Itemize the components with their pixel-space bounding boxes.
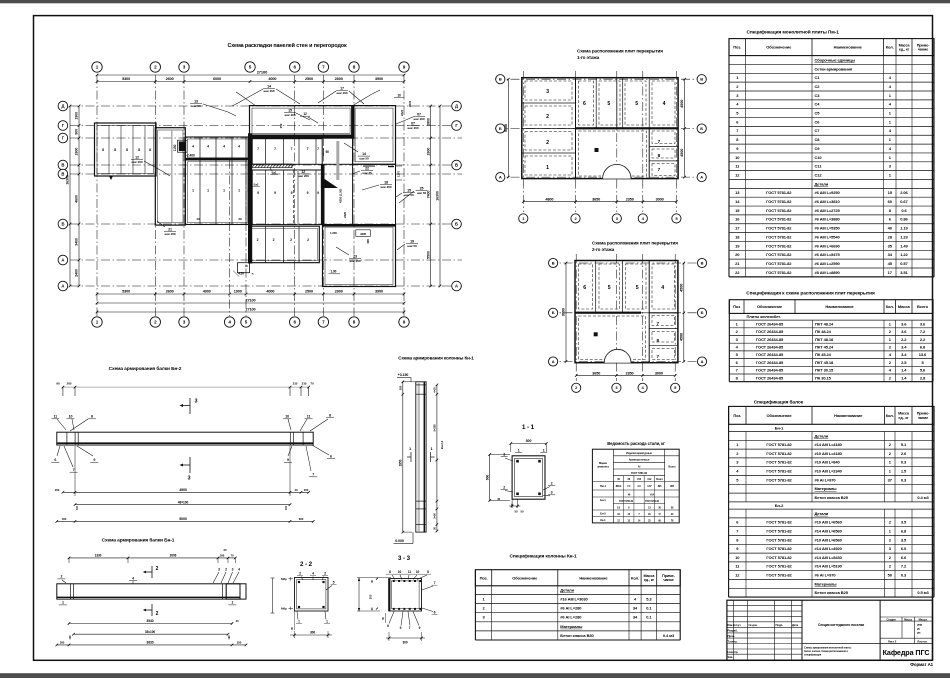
svg-text:35=100: 35=100 bbox=[145, 630, 155, 634]
svg-text:Детали: Детали bbox=[815, 511, 829, 516]
svg-text:сб: сб bbox=[245, 264, 248, 268]
svg-text:ГОСТ 5781-82: ГОСТ 5781-82 bbox=[766, 252, 792, 257]
svg-text:4: 4 bbox=[238, 568, 240, 572]
svg-text:Разраб.: Разраб. bbox=[728, 629, 738, 633]
svg-text:3: 3 bbox=[218, 568, 220, 572]
svg-text:10: 10 bbox=[416, 570, 420, 574]
svg-text:ГОСТ 26434-85: ГОСТ 26434-85 bbox=[756, 329, 784, 334]
main plan vertical axes bbox=[96, 75, 98, 316]
svg-text:Б: Б bbox=[700, 126, 703, 131]
svg-text:7: 7 bbox=[274, 147, 276, 151]
svg-text:2: 2 bbox=[324, 572, 326, 576]
svg-text:6000: 6000 bbox=[213, 77, 221, 81]
svg-text:2: 2 bbox=[290, 238, 292, 242]
svg-text:900: 900 bbox=[75, 129, 79, 135]
svg-text:2600: 2600 bbox=[75, 148, 79, 156]
beam Bn-2 section mark 3 lower bbox=[189, 457, 191, 473]
thick wall axis 8 top bbox=[351, 106, 354, 139]
column Kn-1 left dim bbox=[402, 382, 404, 532]
svg-text:1: 1 bbox=[231, 601, 233, 605]
svg-text:3: 3 bbox=[232, 568, 234, 572]
svg-text:1: 1 bbox=[543, 449, 545, 453]
svg-text:90: 90 bbox=[56, 382, 60, 386]
svg-text:ГОСТ 5781-82: ГОСТ 5781-82 bbox=[766, 564, 792, 569]
svg-text:300: 300 bbox=[310, 630, 315, 634]
svg-text:21: 21 bbox=[168, 228, 172, 232]
svg-text:17: 17 bbox=[340, 87, 344, 91]
svg-text:спецификация: спецификация bbox=[804, 654, 822, 657]
title block bbox=[727, 600, 933, 660]
svg-text:2800: 2800 bbox=[335, 290, 343, 294]
svg-text:шаг 200: шаг 200 bbox=[337, 91, 348, 95]
svg-text:Секция коттеджного поселка: Секция коттеджного поселка bbox=[818, 623, 864, 627]
svg-text:Изделия арматурные: Изделия арматурные bbox=[626, 451, 652, 455]
svg-text:С6: С6 bbox=[815, 119, 821, 124]
svg-text:1 - 1: 1 - 1 bbox=[522, 424, 535, 431]
svg-text:Бн-1: Бн-1 bbox=[600, 498, 606, 502]
svg-text:#10 АIII L=2340: #10 АIII L=2340 bbox=[815, 469, 843, 474]
svg-text:1: 1 bbox=[546, 165, 549, 171]
svg-text:1170: 1170 bbox=[397, 171, 401, 178]
svg-text:шаг 50: шаг 50 bbox=[407, 244, 417, 248]
svg-text:Бн-1: Бн-1 bbox=[775, 425, 784, 430]
section 3-3 left dim bbox=[358, 578, 360, 612]
svg-text:880.2: 880.2 bbox=[616, 485, 622, 488]
svg-text:3.6: 3.6 bbox=[920, 321, 926, 326]
svg-text:Детали: Детали bbox=[560, 588, 574, 593]
svg-text:Спецификация балок: Спецификация балок bbox=[754, 399, 804, 406]
block B: stairwell axes 2-3 bbox=[155, 128, 185, 225]
svg-text:3900: 3900 bbox=[375, 290, 383, 294]
svg-text:С3: С3 bbox=[815, 93, 821, 98]
svg-text:12: 12 bbox=[135, 156, 139, 160]
svg-text:2800: 2800 bbox=[335, 77, 343, 81]
svg-text:#6 АI L=970: #6 АI L=970 bbox=[815, 573, 837, 578]
svg-text:200: 200 bbox=[67, 382, 72, 386]
svg-text:48=100: 48=100 bbox=[178, 500, 189, 504]
svg-text:А: А bbox=[552, 359, 555, 364]
svg-text:0.1: 0.1 bbox=[646, 615, 652, 620]
thick wall axis 6 bbox=[248, 133, 252, 263]
svg-text:0.3: 0.3 bbox=[901, 460, 907, 465]
svg-text:#14 АIII L=4180: #14 АIII L=4180 bbox=[815, 442, 843, 447]
svg-text:1330: 1330 bbox=[95, 554, 102, 558]
svg-text:40: 40 bbox=[294, 488, 298, 492]
svg-text:07: 07 bbox=[411, 122, 415, 126]
svg-text:90: 90 bbox=[326, 150, 330, 154]
svg-text:4300: 4300 bbox=[360, 232, 367, 236]
svg-text:3: 3 bbox=[546, 89, 549, 95]
svg-text:22: 22 bbox=[365, 167, 369, 171]
black wedge wall bbox=[321, 177, 338, 189]
svg-text:3=50: 3=50 bbox=[433, 513, 437, 519]
svg-text:7: 7 bbox=[317, 147, 319, 151]
section 2-2 side dim bbox=[272, 578, 274, 613]
svg-text:16300: 16300 bbox=[436, 191, 440, 201]
svg-text:6: 6 bbox=[583, 101, 586, 107]
svg-text:Схема армирования колонны Кн-1: Схема армирования колонны Кн-1 bbox=[398, 356, 474, 361]
svg-text:шаг 200: шаг 200 bbox=[285, 113, 296, 117]
svg-text:С5: С5 bbox=[815, 111, 821, 116]
svg-text:Обозначение: Обозначение bbox=[512, 575, 538, 580]
svg-text:#6 АIII L=3880: #6 АIII L=3880 bbox=[815, 217, 841, 222]
svg-text:5.6: 5.6 bbox=[920, 368, 926, 373]
svg-text:Дата: Дата bbox=[792, 623, 799, 627]
steel consumption table bbox=[592, 449, 679, 523]
svg-text:Сетки армирования: Сетки армирования bbox=[815, 66, 853, 71]
svg-text:4800: 4800 bbox=[545, 197, 553, 201]
svg-text:ГОСТ 5781-82: ГОСТ 5781-82 bbox=[766, 469, 792, 474]
svg-text:Листов: Листов bbox=[917, 640, 927, 644]
svg-text:Схема расположения плит перекр: Схема расположения плит перекрытия bbox=[592, 241, 678, 246]
svg-text:Кол.: Кол. bbox=[886, 304, 894, 309]
beam Bn-2 section mark 3 upper bbox=[189, 398, 191, 414]
svg-text:2: 2 bbox=[503, 485, 505, 489]
svg-text:250: 250 bbox=[237, 641, 242, 645]
svg-text:16300: 16300 bbox=[66, 175, 70, 185]
svg-text:1: 1 bbox=[238, 189, 240, 193]
svg-text:ГОСТ 5781-82: ГОСТ 5781-82 bbox=[766, 226, 792, 231]
svg-text:шаг 200: шаг 200 bbox=[132, 160, 143, 164]
svg-text:7.2: 7.2 bbox=[901, 564, 907, 569]
svg-text:3.4: 3.4 bbox=[901, 344, 907, 349]
svg-text:#10 АIII L=6560: #10 АIII L=6560 bbox=[815, 520, 843, 525]
svg-text:0.67: 0.67 bbox=[900, 199, 908, 204]
svg-text:9: 9 bbox=[287, 458, 289, 462]
svg-text:2.6: 2.6 bbox=[901, 451, 907, 456]
svg-text:07: 07 bbox=[417, 113, 421, 117]
svg-text:Детали: Детали bbox=[815, 181, 829, 186]
svg-text:300: 300 bbox=[60, 641, 65, 645]
beam Bn-1 body bbox=[57, 584, 240, 599]
title block left grid bbox=[727, 605, 802, 607]
svg-text:Бетон класса В25: Бетон класса В25 bbox=[815, 590, 849, 595]
svg-text:ГОСТ 5781-82: ГОСТ 5781-82 bbox=[766, 243, 792, 248]
svg-text:Поз: Поз bbox=[733, 304, 740, 309]
svg-text:14: 14 bbox=[362, 152, 366, 156]
svg-text:В: В bbox=[61, 163, 64, 168]
svg-text:2400: 2400 bbox=[75, 269, 79, 277]
svg-text:Спецификация монолитной плиты: Спецификация монолитной плиты Пм-1 bbox=[747, 29, 840, 36]
svg-text:0.86: 0.86 bbox=[900, 217, 908, 222]
room 2 lower band between axes bbox=[250, 226, 320, 263]
misc plan leaders top bbox=[236, 92, 256, 106]
svg-text:3650: 3650 bbox=[592, 197, 600, 201]
svg-text:4: 4 bbox=[207, 145, 209, 149]
svg-text:ГОСТ 5781-82: ГОСТ 5781-82 bbox=[766, 477, 792, 482]
svg-text:шаг 50: шаг 50 bbox=[359, 156, 369, 160]
svg-text:Мбр: Мбр bbox=[281, 607, 287, 611]
title block right cells bbox=[879, 600, 881, 660]
svg-text:шаг 75: шаг 75 bbox=[362, 171, 372, 175]
svg-text:27100: 27100 bbox=[245, 299, 255, 303]
svg-text:шаг 200: шаг 200 bbox=[264, 89, 275, 93]
svg-text:Кол.: Кол. bbox=[631, 575, 639, 580]
svg-text:Поз.: Поз. bbox=[733, 45, 741, 50]
svg-text:С8: С8 bbox=[815, 137, 821, 142]
svg-text:2.2: 2.2 bbox=[920, 337, 926, 342]
svg-text:2600: 2600 bbox=[426, 148, 430, 156]
svg-text:11: 11 bbox=[307, 415, 311, 419]
svg-text:3540: 3540 bbox=[146, 619, 153, 623]
svg-text:2-го этажа: 2-го этажа bbox=[592, 247, 615, 252]
section 2-2 body bbox=[295, 578, 329, 612]
svg-text:ГОСТ 5781-82: ГОСТ 5781-82 bbox=[631, 471, 648, 475]
svg-text:Обозначение: Обозначение bbox=[766, 413, 792, 418]
svg-text:Материалы: Материалы bbox=[560, 624, 583, 629]
svg-text:4: 4 bbox=[312, 572, 314, 576]
svg-text:6.8: 6.8 bbox=[920, 344, 926, 349]
beam Bn-2 bottom dims bbox=[63, 491, 309, 493]
svg-text:Марка: Марка bbox=[599, 461, 607, 465]
svg-text:шаг 200: шаг 200 bbox=[414, 117, 425, 121]
svg-text:#6 АIII L=9250: #6 АIII L=9250 bbox=[815, 190, 841, 195]
svg-text:2320: 2320 bbox=[400, 109, 404, 116]
svg-text:3: 3 bbox=[195, 399, 198, 405]
plan 2 outer walls bbox=[575, 261, 678, 363]
svg-text:4500: 4500 bbox=[679, 284, 683, 292]
svg-text:#6 АI L=970: #6 АI L=970 bbox=[815, 477, 837, 482]
svg-text:Схема армирования балки Бн-1: Схема армирования балки Бн-1 bbox=[102, 537, 175, 544]
svg-text:ГОСТ 5781-82: ГОСТ 5781-82 bbox=[766, 573, 792, 578]
svg-text:6.8: 6.8 bbox=[901, 529, 907, 534]
svg-text:шаг 200: шаг 200 bbox=[165, 232, 176, 236]
svg-text:0.4 м3: 0.4 м3 bbox=[917, 495, 929, 500]
svg-text:1.5: 1.5 bbox=[901, 469, 907, 474]
svg-text:#8 АIII L=8890: #8 АIII L=8890 bbox=[815, 270, 841, 275]
svg-text:300: 300 bbox=[398, 385, 402, 390]
svg-text:4250 (1.50): 4250 (1.50) bbox=[339, 189, 343, 203]
svg-text:5300: 5300 bbox=[122, 77, 130, 81]
svg-text:3: 3 bbox=[188, 476, 191, 482]
svg-text:1150: 1150 bbox=[173, 144, 177, 151]
svg-text:ГОСТ 5781-82: ГОСТ 5781-82 bbox=[766, 217, 792, 222]
svg-text:Наименование: Наименование bbox=[579, 575, 608, 580]
svg-text:С12: С12 bbox=[815, 172, 823, 177]
svg-text:7: 7 bbox=[291, 147, 293, 151]
svg-text:Спецификация к схеме расположе: Спецификация к схеме расположения плит п… bbox=[746, 290, 875, 297]
svg-text:С7: С7 bbox=[815, 128, 821, 133]
svg-text:шаг 200: шаг 200 bbox=[350, 259, 361, 263]
svg-text:4.37: 4.37 bbox=[647, 485, 652, 488]
stairwell door black rect bbox=[179, 142, 186, 152]
svg-text:Вн 2,3: Вн 2,3 bbox=[440, 440, 444, 449]
svg-text:Масса: Масса bbox=[904, 617, 912, 621]
svg-text:Схема расположения плит перекр: Схема расположения плит перекрытия bbox=[577, 49, 663, 54]
svg-text:1: 1 bbox=[518, 449, 520, 453]
svg-text:1: 1 bbox=[223, 189, 225, 193]
svg-text:0.57: 0.57 bbox=[900, 261, 908, 266]
svg-text:5=200: 5=200 bbox=[433, 424, 437, 432]
svg-text:210: 210 bbox=[302, 382, 307, 386]
svg-text:#6 АIII L=2590: #6 АIII L=2590 bbox=[815, 261, 841, 266]
svg-text:Д: Д bbox=[61, 104, 64, 109]
svg-text:ГОСТ 5781-82: ГОСТ 5781-82 bbox=[766, 199, 792, 204]
svg-text:ГОСТ 5781-82: ГОСТ 5781-82 bbox=[766, 442, 792, 447]
main plan right dimension lines bbox=[430, 106, 432, 286]
svg-text:7: 7 bbox=[312, 473, 314, 477]
svg-text:1: 1 bbox=[62, 601, 64, 605]
block I: rooms 2 bbox=[250, 226, 320, 263]
svg-text:6: 6 bbox=[434, 611, 436, 615]
svg-text:Подп.: Подп. bbox=[776, 623, 784, 627]
svg-text:ГОСТ 5781-82: ГОСТ 5781-82 bbox=[766, 208, 792, 213]
svg-text:ГОСТ 5781-82: ГОСТ 5781-82 bbox=[766, 537, 792, 542]
svg-text:5: 5 bbox=[333, 581, 335, 585]
svg-text:#10 АIII L=840: #10 АIII L=840 bbox=[815, 460, 841, 465]
svg-text:8: 8 bbox=[91, 415, 93, 419]
svg-text:100: 100 bbox=[75, 505, 79, 510]
svg-text:Бк1: Бк1 bbox=[272, 171, 277, 175]
svg-text:#16 АIII L=3030: #16 АIII L=3030 bbox=[560, 596, 588, 601]
svg-text:2800: 2800 bbox=[426, 118, 430, 126]
beam Bn-1 right end block bbox=[226, 584, 246, 599]
svg-text:390: 390 bbox=[366, 239, 370, 244]
beam Bn-2 top dimension bbox=[63, 386, 309, 388]
svg-text:18: 18 bbox=[384, 181, 388, 185]
svg-text:Формат А1: Формат А1 bbox=[910, 662, 933, 667]
main plan left dimension lines bbox=[78, 106, 80, 286]
section 3-3 body bbox=[389, 579, 422, 612]
svg-text:600: 600 bbox=[485, 475, 489, 481]
svg-text:6: 6 bbox=[330, 455, 332, 459]
svg-text:4000: 4000 bbox=[266, 290, 274, 294]
svg-text:Пров.: Пров. bbox=[728, 634, 736, 638]
svg-text:4500: 4500 bbox=[680, 149, 684, 157]
plan 1 outer walls bbox=[522, 78, 678, 179]
svg-text:23: 23 bbox=[353, 255, 357, 259]
block L: bottom right room bbox=[323, 225, 396, 287]
svg-text:4: 4 bbox=[223, 145, 225, 149]
svg-text:Бн-2: Бн-2 bbox=[775, 503, 784, 508]
svg-text:4500: 4500 bbox=[679, 333, 683, 341]
svg-text:ПКТ 48.24: ПКТ 48.24 bbox=[815, 321, 834, 326]
section 1-1 dims left bbox=[489, 455, 491, 501]
svg-text:2.8: 2.8 bbox=[920, 375, 926, 380]
svg-text:5.1: 5.1 bbox=[901, 442, 907, 447]
svg-text:Плиты железобет.: Плиты железобет. bbox=[747, 314, 781, 319]
svg-text:Наименование: Наименование bbox=[825, 304, 854, 309]
svg-text:3.4: 3.4 bbox=[901, 352, 907, 357]
svg-text:Наименование: Наименование bbox=[834, 413, 863, 418]
svg-text:#14 АIII L=6560: #14 АIII L=6560 bbox=[815, 529, 843, 534]
svg-text:8: 8 bbox=[126, 148, 128, 152]
plan 2 axes bbox=[575, 254, 577, 381]
svg-text:Н.контр.: Н.контр. bbox=[728, 650, 739, 654]
svg-text:В: В bbox=[455, 163, 458, 168]
svg-text:#6 АI L=280: #6 АI L=280 bbox=[560, 606, 582, 611]
svg-text:ПКТ 48.18: ПКТ 48.18 bbox=[815, 337, 834, 342]
svg-text:1: 1 bbox=[207, 189, 209, 193]
svg-text:Кафедра ПГС: Кафедра ПГС bbox=[883, 648, 930, 657]
svg-text:6.0: 6.0 bbox=[901, 546, 907, 551]
svg-text:2350: 2350 bbox=[625, 371, 633, 375]
svg-text:А: А bbox=[61, 258, 64, 263]
svg-text:А: А bbox=[455, 284, 458, 289]
svg-text:ГОСТ 26434-85: ГОСТ 26434-85 bbox=[756, 368, 784, 373]
svg-text:1.23: 1.23 bbox=[900, 234, 908, 239]
svg-text:1900: 1900 bbox=[234, 290, 242, 294]
plan 1 door arc bbox=[603, 164, 631, 178]
svg-text:шаг 50: шаг 50 bbox=[417, 191, 427, 195]
svg-text:10: 10 bbox=[69, 415, 73, 419]
svg-text:10: 10 bbox=[398, 570, 402, 574]
svg-text:5: 5 bbox=[635, 101, 638, 107]
svg-text:6.6: 6.6 bbox=[901, 555, 907, 560]
svg-text:4: 4 bbox=[238, 145, 240, 149]
thick beam under block E bbox=[248, 135, 354, 139]
plan 1 left rooms dividers bbox=[522, 102, 576, 104]
svg-text:ГОСТ 5781-82: ГОСТ 5781-82 bbox=[766, 270, 792, 275]
svg-text:УПП: УПП bbox=[917, 623, 922, 627]
block A bottom arrow bbox=[109, 176, 113, 180]
svg-text:1.4: 1.4 bbox=[901, 375, 907, 380]
section 3-3 bottom dim bbox=[386, 637, 425, 639]
svg-text:4500: 4500 bbox=[680, 100, 684, 108]
svg-text:Всего: Всего bbox=[656, 478, 663, 481]
main plan bottom axis circles bbox=[92, 317, 102, 327]
main plan bottom dimension lines bbox=[97, 293, 404, 295]
grey shaft strip bbox=[336, 141, 339, 180]
svg-text:8: 8 bbox=[138, 148, 140, 152]
svg-text:ПК 45.24: ПК 45.24 bbox=[815, 352, 832, 357]
svg-text:5500: 5500 bbox=[426, 251, 430, 259]
svg-text:12: 12 bbox=[301, 170, 305, 174]
svg-text:ГОСТ 26434-85: ГОСТ 26434-85 bbox=[756, 360, 784, 365]
svg-text:4: 4 bbox=[132, 576, 134, 580]
svg-text:3.51: 3.51 bbox=[900, 270, 908, 275]
svg-text:#6 АIII L=5350: #6 АIII L=5350 bbox=[815, 226, 841, 231]
svg-text:#6 АI L=280: #6 АI L=280 bbox=[560, 615, 582, 620]
svg-text:#14 АIII L=5190: #14 АIII L=5190 bbox=[815, 564, 843, 569]
svg-text:Материалы: Материалы bbox=[815, 581, 838, 586]
svg-text:206: 206 bbox=[220, 554, 225, 558]
svg-text:Масса: Масса bbox=[898, 304, 911, 309]
svg-text:Бк2: Бк2 bbox=[254, 183, 259, 187]
svg-text:0.3: 0.3 bbox=[901, 477, 907, 482]
svg-text:С10: С10 bbox=[815, 155, 823, 160]
svg-text:2800: 2800 bbox=[408, 100, 412, 107]
svg-text:Наименование: Наименование bbox=[834, 45, 863, 50]
svg-text:252: 252 bbox=[279, 123, 283, 128]
svg-text:7.2: 7.2 bbox=[920, 329, 926, 334]
column Kn-1 section mark 1 bbox=[410, 452, 412, 462]
section 3-3 lower-left 30 dim bbox=[385, 613, 387, 623]
svg-text:Материалы: Материалы bbox=[815, 486, 838, 491]
plan 2 inner walls bbox=[575, 312, 641, 314]
svg-text:1.90: 1.90 bbox=[331, 270, 337, 274]
plan 1 axes bbox=[522, 71, 524, 212]
svg-text:Б: Б bbox=[499, 126, 502, 131]
svg-text:Схема армирования балки Бн-2: Схема армирования балки Бн-2 bbox=[109, 365, 182, 372]
svg-text:ГОСТ 5781-82: ГОСТ 5781-82 bbox=[766, 546, 792, 551]
svg-text:3000: 3000 bbox=[656, 197, 664, 201]
svg-text:3.5: 3.5 bbox=[901, 520, 907, 525]
svg-text:100: 100 bbox=[284, 505, 288, 510]
svg-text:2: 2 bbox=[307, 238, 309, 242]
svg-text:1: 1 bbox=[192, 189, 194, 193]
svg-text:3.6: 3.6 bbox=[901, 321, 907, 326]
svg-text:ГОСТ 5781-82: ГОСТ 5781-82 bbox=[766, 460, 792, 465]
main plan horizontal axes bbox=[70, 105, 462, 107]
svg-text:Мбр: Мбр bbox=[281, 577, 287, 581]
beam Bn-1 top dimension bbox=[69, 557, 235, 559]
svg-text:С1: С1 bbox=[815, 75, 821, 80]
svg-text:300: 300 bbox=[526, 439, 532, 443]
svg-text:2: 2 bbox=[60, 575, 62, 579]
svg-text:5: 5 bbox=[607, 101, 610, 107]
svg-text:Б: Б bbox=[701, 310, 704, 315]
